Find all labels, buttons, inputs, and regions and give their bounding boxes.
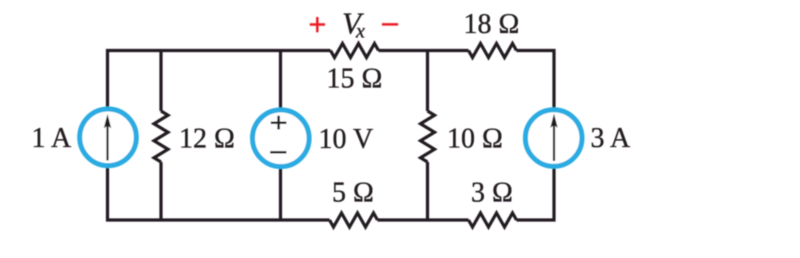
svg-text:10 Ω: 10 Ω xyxy=(447,124,503,155)
resistor 5 ohm (bottom, horizontal zigzag) xyxy=(330,213,378,227)
wire bottom-left corner up to 1A source xyxy=(108,166,330,220)
voltage source V1 minus sign xyxy=(270,151,286,154)
current source I1 1A (circle) xyxy=(80,109,137,166)
current source I2 3A (circle) xyxy=(525,110,582,167)
wire 12-ohm branch bottom lead xyxy=(159,162,162,220)
wire right vertical below 3A source + bottom-right corner xyxy=(517,167,555,220)
wire top-left corner (node A run: left branch to 15-ohm) xyxy=(108,51,331,111)
wire top-right corner down to 3A source xyxy=(517,51,555,111)
svg-text:5 Ω: 5 Ω xyxy=(332,178,374,209)
resistor 12 ohm (vertical zigzag) xyxy=(154,111,168,162)
wire 10-ohm branch top lead (node B down) xyxy=(426,51,429,112)
wire 10V source branch top lead xyxy=(279,51,282,111)
svg-text:1 A: 1 A xyxy=(32,123,72,154)
wire 10V source branch bottom lead xyxy=(279,167,282,220)
label Vx polarity plus (red) xyxy=(310,17,325,32)
svg-text:3 Ω: 3 Ω xyxy=(471,178,513,209)
current source I2 arrow xyxy=(550,114,557,162)
svg-text:10 V: 10 V xyxy=(319,124,374,155)
wire top middle (between 15-ohm and 18-ohm, node B) xyxy=(379,49,469,52)
svg-text:15 Ω: 15 Ω xyxy=(327,63,383,94)
svg-text:3 A: 3 A xyxy=(591,123,631,154)
resistor 3 ohm (bottom right, horizontal zigzag) xyxy=(469,213,517,227)
svg-text:12 Ω: 12 Ω xyxy=(179,123,235,154)
resistor 15 ohm (top, horizontal zigzag) xyxy=(331,44,379,58)
wire 12-ohm branch top lead xyxy=(159,51,162,112)
current source I1 arrow xyxy=(104,114,111,161)
resistor 18 ohm (top right, horizontal zigzag) xyxy=(469,44,517,58)
voltage source V1 plus sign xyxy=(271,116,287,130)
svg-text:x: x xyxy=(355,21,365,43)
label Vx polarity minus (red) xyxy=(382,23,398,26)
svg-text:18 Ω: 18 Ω xyxy=(464,9,520,40)
wire 10-ohm branch bottom lead (node C up) xyxy=(426,162,429,220)
wire bottom middle (between 5-ohm and 3-ohm, node C) xyxy=(378,218,469,221)
resistor 10 ohm (vertical zigzag) xyxy=(421,111,435,162)
voltage source V1 10V (circle) xyxy=(252,110,309,167)
